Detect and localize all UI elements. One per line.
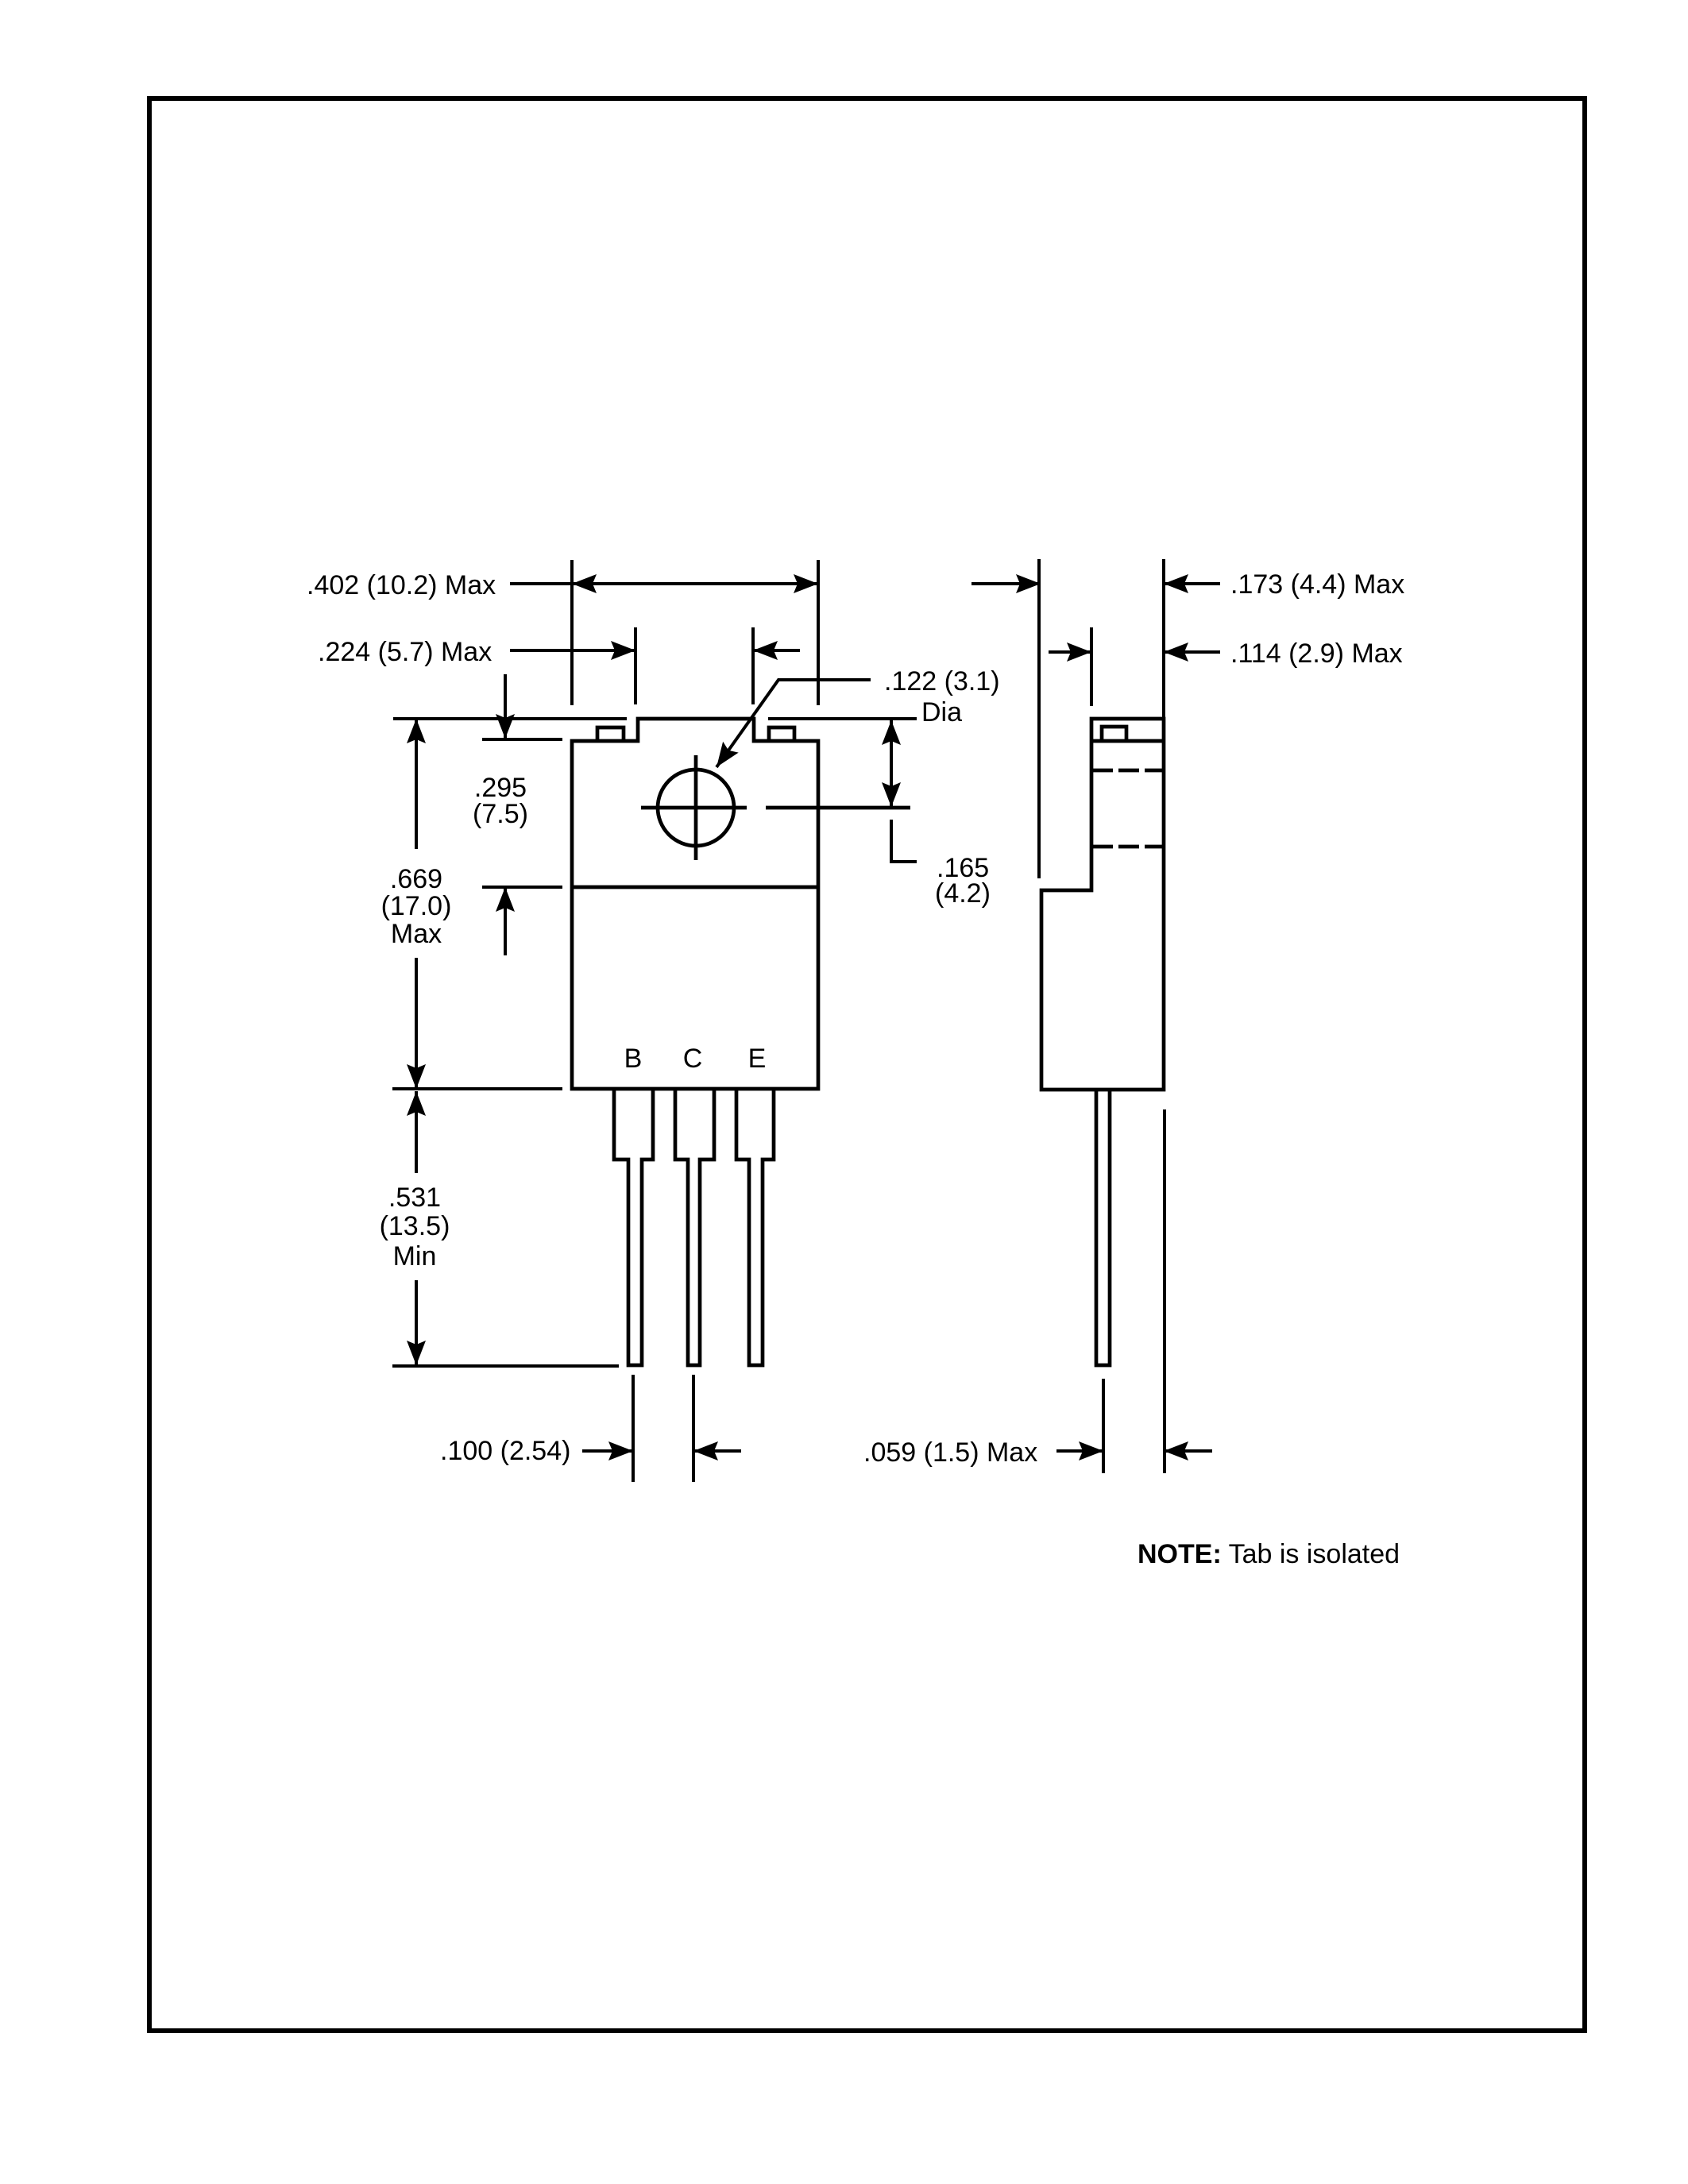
tab top extension line right xyxy=(768,717,917,720)
svg-text:.402 (10.2) Max: .402 (10.2) Max xyxy=(307,570,496,600)
side view notch xyxy=(1102,727,1126,741)
dimension line .173 left part xyxy=(971,582,1041,585)
body top extension stub left xyxy=(482,738,562,741)
extension line .402 left xyxy=(570,560,574,705)
front view mid line xyxy=(572,886,818,889)
dimension line .402 xyxy=(510,582,818,585)
svg-text:B: B xyxy=(624,1044,643,1074)
side view hidden hole line upper (dashed) xyxy=(1092,769,1163,773)
dimension line .100 right part xyxy=(693,1449,741,1453)
lead E outline xyxy=(736,1090,774,1365)
border frame xyxy=(149,98,1585,2031)
lead tip extension line xyxy=(392,1364,619,1368)
side extension line tab back xyxy=(1090,627,1093,706)
arrowhead .173 right xyxy=(1164,574,1188,593)
svg-text:.224 (5.7) Max: .224 (5.7) Max xyxy=(318,637,492,667)
dimension shaft .531 upper xyxy=(415,1091,418,1173)
extension line .059 left xyxy=(1102,1379,1105,1473)
side extension line front face xyxy=(1037,559,1041,878)
side extension line rear face upper xyxy=(1162,559,1165,719)
leader line .122 Dia xyxy=(717,680,871,767)
extension line .224 left xyxy=(634,627,637,704)
body bottom extension line left xyxy=(392,1087,562,1090)
arrowhead .531 bottom xyxy=(407,1341,426,1365)
arrowhead .114 left xyxy=(1067,642,1091,662)
leader line .165 xyxy=(891,820,917,862)
arrowhead step up xyxy=(496,887,515,912)
arrowhead step down xyxy=(496,714,515,739)
dimension shaft .531 lower xyxy=(415,1280,418,1365)
dimension line .224 left part xyxy=(510,649,635,652)
arrowhead .669 bottom xyxy=(407,1064,426,1089)
svg-text:NOTE: Tab is isolated: NOTE: Tab is isolated xyxy=(1138,1539,1400,1569)
arrowhead .059 left xyxy=(1079,1441,1103,1461)
arrowhead .669 top xyxy=(407,719,426,743)
dimension line .224 right part xyxy=(753,649,800,652)
lead B outline xyxy=(614,1090,653,1365)
side view lead outline xyxy=(1096,1090,1110,1365)
extension line .100 left xyxy=(632,1375,635,1482)
arrowhead .402 right xyxy=(794,574,818,593)
arrowhead .059 right xyxy=(1164,1441,1188,1461)
hole crosshair vertical xyxy=(694,755,698,860)
svg-text:Min: Min xyxy=(393,1241,437,1271)
side extension line rear face lower xyxy=(1163,1109,1166,1473)
arrowhead .173 left xyxy=(1016,574,1041,593)
side view body outline xyxy=(1041,719,1164,1090)
svg-text:.100 (2.54): .100 (2.54) xyxy=(440,1436,570,1466)
dimension line .100 left part xyxy=(582,1449,633,1453)
svg-text:.114 (2.9) Max: .114 (2.9) Max xyxy=(1230,639,1403,669)
arrowhead .531 top xyxy=(407,1091,426,1116)
dimension arrow shaft step up xyxy=(504,887,507,955)
dimension line .173 right part xyxy=(1164,582,1220,585)
svg-text:(7.5): (7.5) xyxy=(473,799,528,829)
side view hidden hole line lower (dashed) xyxy=(1092,845,1163,849)
front view left notch xyxy=(597,727,624,741)
arrowhead .100 right xyxy=(693,1441,718,1461)
svg-text:.059 (1.5) Max: .059 (1.5) Max xyxy=(863,1437,1037,1468)
dimension shaft .669 upper xyxy=(415,719,418,849)
tab top extension line left xyxy=(393,717,627,720)
lead C outline xyxy=(675,1090,714,1365)
svg-text:.669: .669 xyxy=(390,864,442,894)
mid line extension stub left xyxy=(482,886,562,889)
svg-text:Max: Max xyxy=(391,919,442,949)
dimension arrow shaft step down xyxy=(504,674,507,739)
arrowhead .165 bottom xyxy=(882,782,901,807)
svg-text:(4.2): (4.2) xyxy=(935,878,991,909)
dimension line .059 left part xyxy=(1056,1449,1103,1453)
svg-text:.173 (4.4) Max: .173 (4.4) Max xyxy=(1230,569,1404,600)
extension line .402 right xyxy=(817,560,820,705)
svg-text:.122 (3.1): .122 (3.1) xyxy=(884,666,1000,696)
hole center extension line right xyxy=(766,806,910,810)
extension line .224 right xyxy=(751,627,755,704)
arrowhead .100 left xyxy=(608,1441,633,1461)
arrowhead .114 right xyxy=(1164,642,1188,662)
arrowhead .165 top xyxy=(882,720,901,745)
mounting hole xyxy=(658,770,734,846)
svg-text:E: E xyxy=(748,1044,767,1074)
arrowhead .224 right xyxy=(753,641,778,660)
svg-text:.531: .531 xyxy=(388,1183,441,1213)
svg-text:(17.0): (17.0) xyxy=(381,891,452,921)
svg-text:C: C xyxy=(683,1044,703,1074)
front view right notch xyxy=(769,727,794,741)
side view tab clamp line xyxy=(1091,739,1164,743)
dimension shaft .165 xyxy=(890,720,893,807)
extension line .100 right xyxy=(692,1375,695,1482)
dimension line .114 left part xyxy=(1049,650,1091,654)
arrowhead .402 left xyxy=(572,574,597,593)
arrowhead .224 left xyxy=(611,641,635,660)
dimension shaft .669 lower xyxy=(415,958,418,1089)
arrowhead leader .122 xyxy=(709,742,739,773)
svg-text:(13.5): (13.5) xyxy=(380,1211,450,1241)
dimension line .059 right part xyxy=(1164,1449,1212,1453)
hole crosshair horizontal xyxy=(641,806,747,810)
svg-text:Dia: Dia xyxy=(921,697,962,727)
dimension line .114 right part xyxy=(1164,650,1220,654)
front view body outline xyxy=(572,719,818,1089)
